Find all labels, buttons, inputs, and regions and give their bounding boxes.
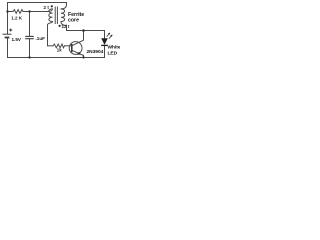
svg-text:1.5V: 1.5V	[12, 37, 22, 42]
transformer phase dot left winding	[51, 5, 53, 7]
transformer T1 core bar left	[54, 7, 56, 24]
wire top rail	[8, 2, 67, 4]
wire base branch horizontal with resistor R1	[8, 11, 14, 13]
wire emitter vertical to ground	[83, 55, 85, 57]
LED D1 triangle	[101, 38, 108, 45]
battery plus sign	[9, 29, 12, 32]
wire right winding bottom lead	[66, 25, 68, 30]
transformer T1 core bar right	[56, 7, 58, 24]
transistor Q1 emitter arrowhead	[77, 52, 81, 55]
transistor Q1 emitter diagonal	[72, 50, 83, 55]
resistor R2 zigzag	[53, 44, 65, 48]
LED D1 cathode bar	[101, 44, 108, 46]
transformer T1 left winding (base winding)	[47, 9, 53, 25]
wire bottom ground rail	[8, 57, 105, 59]
svg-text:.1uF: .1uF	[36, 36, 46, 41]
transformer T1 right winding (12t)	[61, 5, 67, 26]
wire collector rail y30	[67, 30, 105, 32]
resistor R1 1.2K zigzag	[13, 10, 23, 14]
node junction dot battery/base branch	[6, 10, 8, 12]
wire left vertical (battery - side)	[7, 38, 9, 58]
battery B1 1.5V plates	[3, 34, 12, 37]
wire left vertical (battery + side)	[7, 3, 9, 35]
svg-text:White: White	[108, 45, 121, 51]
LED D1 emission arrow 1	[107, 33, 113, 39]
node junction dot collector	[82, 29, 85, 32]
wire R2 to base of Q1	[65, 45, 72, 47]
wire capacitor bottom branch	[29, 39, 31, 58]
transformer phase dot right winding	[59, 25, 61, 27]
svg-text:core: core	[68, 17, 79, 23]
wire LED cathode vertical	[104, 46, 106, 58]
svg-text:12 t: 12 t	[62, 24, 70, 29]
node junction dot cap bottom	[28, 56, 30, 58]
wire from R1 to transformer left winding	[23, 11, 47, 13]
transistor Q1 collector diagonal	[72, 40, 83, 45]
wire left winding down to base resistor	[47, 25, 49, 46]
svg-text:1.2 K: 1.2 K	[11, 16, 23, 21]
wire LED anode vertical	[104, 31, 106, 39]
svg-text:2N3904: 2N3904	[87, 49, 104, 55]
wire right winding top lead from top rail	[66, 3, 68, 5]
transistor Q1 base bar	[71, 44, 73, 52]
node junction dot emitter ground	[82, 56, 84, 58]
svg-text:LED: LED	[108, 50, 118, 56]
node junction dot cap top	[28, 10, 30, 12]
wire collector vertical	[83, 31, 85, 41]
LED D1 emission arrow 2	[109, 35, 112, 38]
wire capacitor top branch	[29, 12, 31, 37]
capacitor C1 plates	[25, 36, 34, 38]
svg-text:1k: 1k	[57, 48, 62, 53]
svg-text:2 t: 2 t	[44, 5, 50, 10]
wire into base resistor R2	[48, 45, 54, 47]
transistor Q1 2N3904 circle	[69, 42, 82, 55]
